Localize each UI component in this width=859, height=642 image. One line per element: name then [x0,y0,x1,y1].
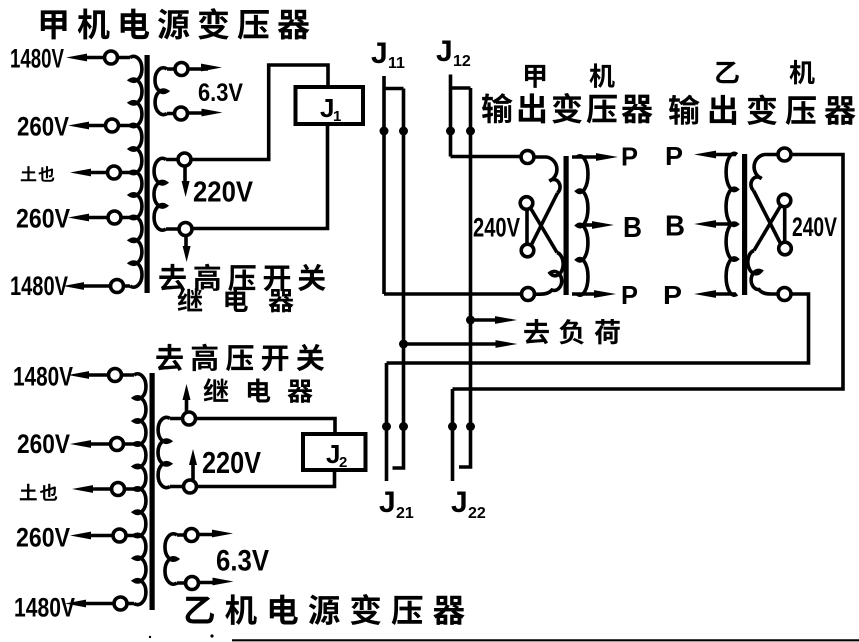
junction dot J22-right [466,422,475,431]
title 乙机 [716,60,815,84]
svg-text:240V: 240V [473,213,520,243]
polarity arrow (up) [189,449,197,480]
label 240V (B) [792,212,837,242]
wire J11 to T-out-A primary bottom [384,292,521,296]
T-out-B primary terminal top [778,148,791,161]
tap wire P top (A) [572,153,618,161]
arrow to HV switch relay (down) [183,237,191,262]
transformer T-B core [150,373,155,610]
tap link vertical (B) [783,207,787,242]
T-A 6.3V winding [155,68,175,115]
svg-text:1480V: 1480V [10,271,68,301]
label J22 [451,486,486,522]
title: 乙机电源变压器 [186,594,465,625]
label P bottom (A) [621,280,638,310]
svg-text:1480V: 1480V [14,593,75,623]
wire J12 to T-out-A primary top [451,155,522,159]
svg-text:260V: 260V [17,429,70,459]
T-out-A primary terminal top [521,151,534,164]
T-A primary winding [117,56,142,287]
transformer T-A core [145,55,150,293]
svg-text:2: 2 [339,454,347,471]
svg-text:12: 12 [453,53,471,70]
label 240V (A) [473,213,520,243]
svg-text:6.3V: 6.3V [216,545,269,578]
tap link upper tap to lower winding (diag) [531,208,558,253]
svg-text:P: P [621,280,638,310]
tap link vertical [525,210,529,245]
title 输出变压器 (A) [482,93,653,124]
T-out-A primary upper winding [534,157,560,193]
wire J1 to 220V-bottom [192,124,328,229]
tap wire B mid (B) [694,220,730,228]
240V tap circle upper [520,197,533,210]
terminal 220V bottom [179,223,192,236]
label J11 [371,37,405,72]
bottom edge scan line [232,639,859,641]
T-out-B secondary winding [726,153,737,295]
contact J22 [451,389,455,481]
wire 220V-top to J2 [196,419,336,435]
label B (A) [623,212,642,244]
svg-text:21: 21 [396,505,414,522]
terminal 1480V (T-A primary tap 5) [10,271,124,301]
junction dot J21-right [399,422,408,431]
terminal 260V (T-A primary tap 2) [17,112,119,142]
svg-text:B: B [665,211,685,243]
terminal 土也 (T-B primary tap 3) [20,483,125,501]
terminal 1480V (T-A primary tap 1) [10,44,118,74]
title 甲机 [525,63,615,87]
label J12 [436,35,471,70]
junction dot (load tap upper) [466,316,475,325]
terminal 220V top (T-B) [183,412,196,425]
arrow to HV switch relay (up) [183,384,191,412]
svg-text:1480V: 1480V [10,44,64,74]
T-out-B primary terminal bottom [778,288,791,301]
terminal 6.3V bottom [175,107,223,120]
contact/wire J11-right down to J21 [393,89,404,469]
T-out-A core [564,156,569,295]
T-out-B primary upper winding [751,155,778,191]
label J21 [379,486,414,522]
contact J21 [385,363,389,481]
tap wire P top (B) [694,151,736,159]
T-B 6.3V winding [165,534,186,584]
junction dot J21-left [382,422,391,431]
svg-text:B: B [623,212,642,244]
svg-text:P: P [621,142,638,172]
label 去高压开关 [159,264,325,292]
svg-text:J: J [379,486,396,519]
T-out-A primary lower winding [535,253,564,295]
T-out-A primary terminal bottom [522,288,535,301]
240V tap circle lower [521,244,534,257]
label B (B) [665,211,685,243]
label P top (A) [621,142,638,172]
terminal 1480V (T-B primary tap 5) [14,593,127,623]
terminal 220V top [178,153,191,166]
terminal 1480V (T-B primary tap 1) [13,362,122,392]
title: 甲机电源变压器 [41,8,310,39]
terminal 260V (T-B primary tap 2) [17,429,124,459]
contact J11 [384,76,404,294]
label 220V [193,177,254,209]
label P top (B) [665,141,683,171]
terminal 6.3V bottom (T-B) [186,577,234,590]
junction dot J12-right [466,127,475,136]
svg-text:P: P [665,141,683,171]
tap wire P bottom (B) [694,290,736,298]
svg-text:22: 22 [468,505,486,522]
label 220V (T-B) [202,445,261,480]
wire row4: J22-left to T-out-B primary top [453,155,844,390]
arrow 去负荷 upper [471,316,518,324]
T-out-B core [742,154,747,295]
T-A 220V winding [154,158,179,230]
junction dot (load tap lower) [399,340,408,349]
wire J2 to 220V-bottom [197,470,335,487]
scan artifact dots [210,634,213,637]
junction dot J12-left [446,127,455,136]
relay coil J1 [296,87,364,125]
label 6.3V (T-B) [216,545,269,578]
polarity arrow (down) [182,166,190,197]
tap link upper tap to lower winding (diag B) [754,206,781,251]
tap link upper-winding to lower tap (diag) [531,193,558,246]
svg-text:J: J [451,486,468,519]
label 去负荷 [524,319,620,344]
junction dot J11-left [380,127,389,136]
terminal 6.3V top [175,63,222,76]
wire 220V-top to J1 [191,65,328,160]
svg-text:260V: 260V [16,204,70,234]
terminal 260V (T-A primary tap 4) [16,204,121,234]
T-out-B primary lower winding [748,251,778,295]
contact J12 [451,75,471,157]
junction dot J11-right [399,127,408,136]
contact/wire J12-right down to J22 [459,88,471,467]
wire row3: J21-left to T-out-B primary bottom [387,294,809,363]
svg-text:J: J [371,37,388,70]
terminal 土也 (T-A primary tap 3) [21,166,121,182]
label 继电器 (T-B) [203,378,312,403]
relay coil J2 [303,434,366,471]
arrow 去负荷 lower [404,340,518,348]
240V tap circle lower (B) [779,242,792,255]
svg-text:6.3V: 6.3V [198,79,243,107]
240V tap circle upper (B) [778,194,791,207]
svg-text:220V: 220V [193,177,254,209]
label 继电器 [177,288,293,313]
tap link upper-winding to lower tap (diag B) [754,191,781,244]
svg-text:220V: 220V [202,445,261,480]
svg-text:11: 11 [388,55,405,72]
label 去高压开关 (T-B) [156,344,324,372]
svg-text:240V: 240V [792,212,837,242]
svg-text:1480V: 1480V [13,362,73,392]
svg-text:J: J [436,35,453,68]
T-B primary winding [121,374,146,605]
label 6.3V [198,79,243,107]
label P bottom (B) [663,280,682,310]
svg-text:260V: 260V [17,112,69,142]
tap wire B mid (A) [578,221,614,229]
junction dot J22-left [448,422,457,431]
svg-text:P: P [663,280,682,310]
terminal 6.3V top (T-B) [185,529,233,542]
svg-text:1: 1 [333,108,341,125]
terminal 260V (T-B primary tap 4) [16,523,126,553]
tap wire P bottom (A) [572,290,616,298]
terminal 220V bottom (T-B) [184,480,197,493]
title 输出变压器 (B) [669,94,856,125]
svg-text:260V: 260V [16,523,70,553]
T-B 220V winding [158,417,183,487]
T-out-A secondary winding [577,156,588,295]
